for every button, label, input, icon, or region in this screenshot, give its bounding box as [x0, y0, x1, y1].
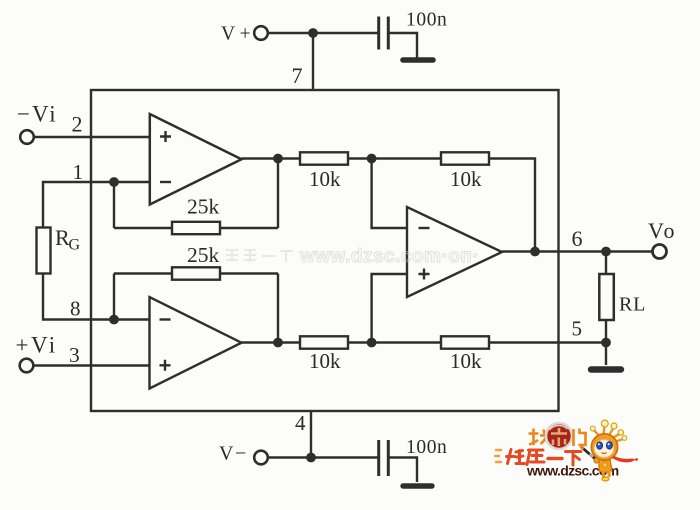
- resistor 10k (bottom right): [441, 336, 489, 348]
- svg-text:4: 4: [295, 411, 306, 435]
- svg-text:10k: 10k: [450, 167, 482, 191]
- terminal +Vi: [20, 359, 34, 373]
- wire A2 feedback right leg: [277, 274, 279, 343]
- eyes: [597, 442, 603, 449]
- capacitor C2 100n plate right: [387, 440, 390, 476]
- svg-text:www.dzsc.com·оп·: www.dzsc.com·оп·: [299, 246, 479, 267]
- resistor 10k (top left): [300, 152, 348, 164]
- boot: [602, 477, 609, 481]
- svg-text:7: 7: [292, 63, 303, 88]
- wire A1 feedback right leg: [277, 159, 279, 229]
- wire 25k top right lead: [220, 227, 278, 229]
- junction A3 output node: [530, 247, 540, 257]
- svg-text:+Vi: +Vi: [16, 333, 58, 358]
- terminal V-: [254, 451, 268, 465]
- wire A1 feedback left leg: [113, 182, 115, 228]
- svg-text:−Vi: −Vi: [17, 102, 58, 127]
- svg-text:5: 5: [572, 317, 583, 341]
- resistor RG: [37, 228, 51, 274]
- capacitor C2 100n plate left: [377, 440, 380, 476]
- wire A3 output: [502, 250, 653, 252]
- svg-text:8: 8: [70, 297, 81, 321]
- hand: [594, 458, 599, 463]
- body: [599, 459, 612, 472]
- yi (one): [548, 457, 562, 460]
- ground (RL): [591, 366, 621, 372]
- svg-text:10k: 10k: [309, 349, 341, 373]
- wire top row middle: [348, 157, 441, 159]
- legs: [603, 471, 609, 478]
- capacitor C1 100n plate left: [377, 17, 380, 50]
- junction bottom row: [367, 338, 377, 348]
- wire pin 4: [310, 411, 312, 458]
- watermark mascot: [581, 420, 638, 481]
- resistor 25k (bottom): [172, 267, 220, 279]
- mouth: [602, 453, 607, 454]
- wire 25k bottom left lead: [114, 272, 172, 274]
- svg-text:Vo: Vo: [648, 218, 677, 243]
- faint watermark band (center): [226, 246, 479, 267]
- wire RG to pin8: [43, 274, 150, 320]
- svg-text:2: 2: [72, 112, 83, 137]
- svg-text:10k: 10k: [450, 349, 482, 373]
- wire 25k bottom right lead: [220, 272, 278, 274]
- svg-text:G: G: [69, 237, 81, 254]
- char zhao (find): [529, 429, 550, 446]
- junction pin8/feedback: [109, 315, 119, 325]
- face: [594, 440, 614, 458]
- wire pin 2: [34, 136, 150, 138]
- motion dashes: [495, 450, 501, 462]
- magnifier circle with xin: [546, 423, 572, 449]
- ground (top): [403, 57, 433, 63]
- wire 10k top-right to output node: [489, 159, 535, 252]
- svg-text:V−: V−: [219, 443, 248, 465]
- op-amp A3 plus input mark: [419, 269, 430, 280]
- wire V- rail: [268, 456, 378, 458]
- op-amp A2: [150, 297, 242, 389]
- op-amp A2 plus input mark: [160, 360, 171, 371]
- wire bottom row middle: [348, 341, 441, 343]
- op-amp A2 minus input mark: [160, 318, 171, 320]
- junction top row: [367, 154, 377, 164]
- svg-text:V +: V +: [221, 24, 251, 45]
- wire RL top lead: [605, 252, 607, 275]
- ground (bottom): [403, 483, 432, 488]
- capacitor C1 100n plate right: [387, 17, 390, 50]
- wire V+ rail: [268, 32, 378, 34]
- wire 25k top left lead: [114, 227, 172, 229]
- arm: [596, 458, 600, 462]
- svg-text:1: 1: [73, 160, 84, 184]
- junction A2 output/feedback: [273, 338, 283, 348]
- resistor 10k (bottom left): [300, 336, 348, 348]
- op-amp A1 minus input mark: [160, 181, 171, 183]
- svg-text:3: 3: [69, 343, 80, 367]
- svg-text:RL: RL: [619, 294, 646, 316]
- svg-text:100n: 100n: [406, 10, 447, 31]
- xia: [566, 452, 582, 466]
- IC package box: [91, 90, 559, 411]
- svg-text:100n: 100n: [406, 437, 447, 458]
- char pian (chip): [574, 429, 588, 447]
- wei: [507, 450, 525, 464]
- belt button: [603, 463, 607, 467]
- ribbon: [613, 456, 636, 463]
- svg-text:6: 6: [572, 226, 583, 251]
- ku: [527, 450, 544, 465]
- op-amp A3: [407, 207, 502, 297]
- terminal -Vi: [20, 130, 34, 144]
- junction pin5/RL: [601, 338, 611, 348]
- svg-text:10k: 10k: [309, 167, 341, 191]
- wire to A3 inverting input: [372, 159, 407, 229]
- wire A1 output: [242, 157, 301, 159]
- wire pin 7: [312, 33, 314, 90]
- crown balls: [601, 420, 608, 427]
- wire A3 plus input: [372, 274, 407, 343]
- wire C1 to ground: [388, 33, 417, 58]
- op-amp A1 plus input mark: [160, 131, 171, 142]
- head: [591, 434, 617, 460]
- terminal V+: [254, 26, 268, 40]
- junction Vo/RL: [601, 247, 611, 257]
- resistor 10k (top right): [441, 152, 489, 164]
- watermark logo zhao-xin-pian: [529, 423, 588, 449]
- junction V-/pin4: [306, 453, 316, 463]
- resistor 25k (top): [172, 222, 220, 234]
- resistor RL: [599, 274, 614, 320]
- crown stalks: [594, 427, 624, 443]
- junction A1 output/feedback: [273, 154, 283, 164]
- wire A2 feedback left leg: [113, 274, 115, 320]
- junction V+/pin7: [308, 28, 318, 38]
- op-amp A3 minus input mark: [419, 227, 430, 229]
- wire RL to ground: [605, 320, 607, 365]
- pen: [582, 448, 598, 462]
- wire A2 output: [242, 341, 301, 343]
- svg-text:25k: 25k: [187, 243, 220, 267]
- svg-text:25k: 25k: [187, 195, 220, 219]
- watermark weiku-yixia red text: [507, 450, 582, 466]
- wire pin 5 row: [489, 341, 606, 343]
- wire pin 1: [43, 182, 150, 228]
- terminal Vo: [653, 245, 667, 259]
- wire pin 3: [33, 364, 149, 366]
- junction pin1/feedback: [109, 177, 119, 187]
- wire C2 to ground: [388, 458, 417, 483]
- op-amp A1: [150, 114, 242, 205]
